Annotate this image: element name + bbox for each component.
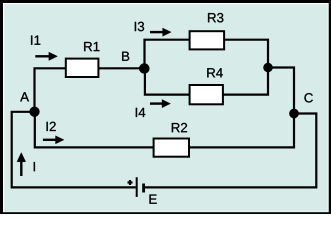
current arrow I4 <box>150 100 171 108</box>
label R3 <box>208 13 223 22</box>
wire B up riser to R3 branch <box>145 40 190 69</box>
wire node C right then down right rail to battery - plate <box>145 114 317 188</box>
label R1 <box>84 42 99 51</box>
wire R4 right up to junction <box>223 68 268 95</box>
wire R3 right to junction <box>224 40 268 68</box>
current arrow I1 <box>35 52 57 60</box>
battery E negative short plate <box>142 184 145 193</box>
current arrow I (vertical, up) <box>17 153 26 177</box>
node B <box>139 63 149 73</box>
label I1 <box>31 36 40 45</box>
battery plus sign <box>128 180 133 185</box>
label I3 <box>135 22 144 31</box>
resistor R3 <box>190 31 225 49</box>
resistor R4 <box>190 85 223 104</box>
resistor R1 <box>66 59 99 77</box>
wire node C down and left to R2 <box>189 114 294 148</box>
label R4 <box>207 68 223 77</box>
label I4 <box>136 108 145 117</box>
wire A up riser to main line <box>35 68 66 112</box>
label I2 <box>47 122 56 131</box>
label I <box>34 162 35 171</box>
label C <box>304 93 312 102</box>
label B <box>122 52 129 61</box>
wire junction right and down to node C <box>268 68 294 114</box>
resistor R2 <box>154 139 189 157</box>
wire B down riser to R4 branch <box>145 68 190 94</box>
battery E positive long plate <box>136 177 138 197</box>
label A <box>20 92 29 101</box>
label R2 <box>172 123 187 132</box>
label E <box>149 195 156 204</box>
wire R1 right to node B <box>98 67 144 69</box>
node A <box>30 107 40 117</box>
node C <box>289 109 298 118</box>
wire A to left rail, down and along bottom to battery + plate <box>12 112 136 188</box>
wire R2 left to A down riser <box>35 112 154 148</box>
node junction of R3 R4 <box>263 63 272 72</box>
current arrow I2 <box>43 136 64 144</box>
current arrow I3 <box>150 28 171 36</box>
